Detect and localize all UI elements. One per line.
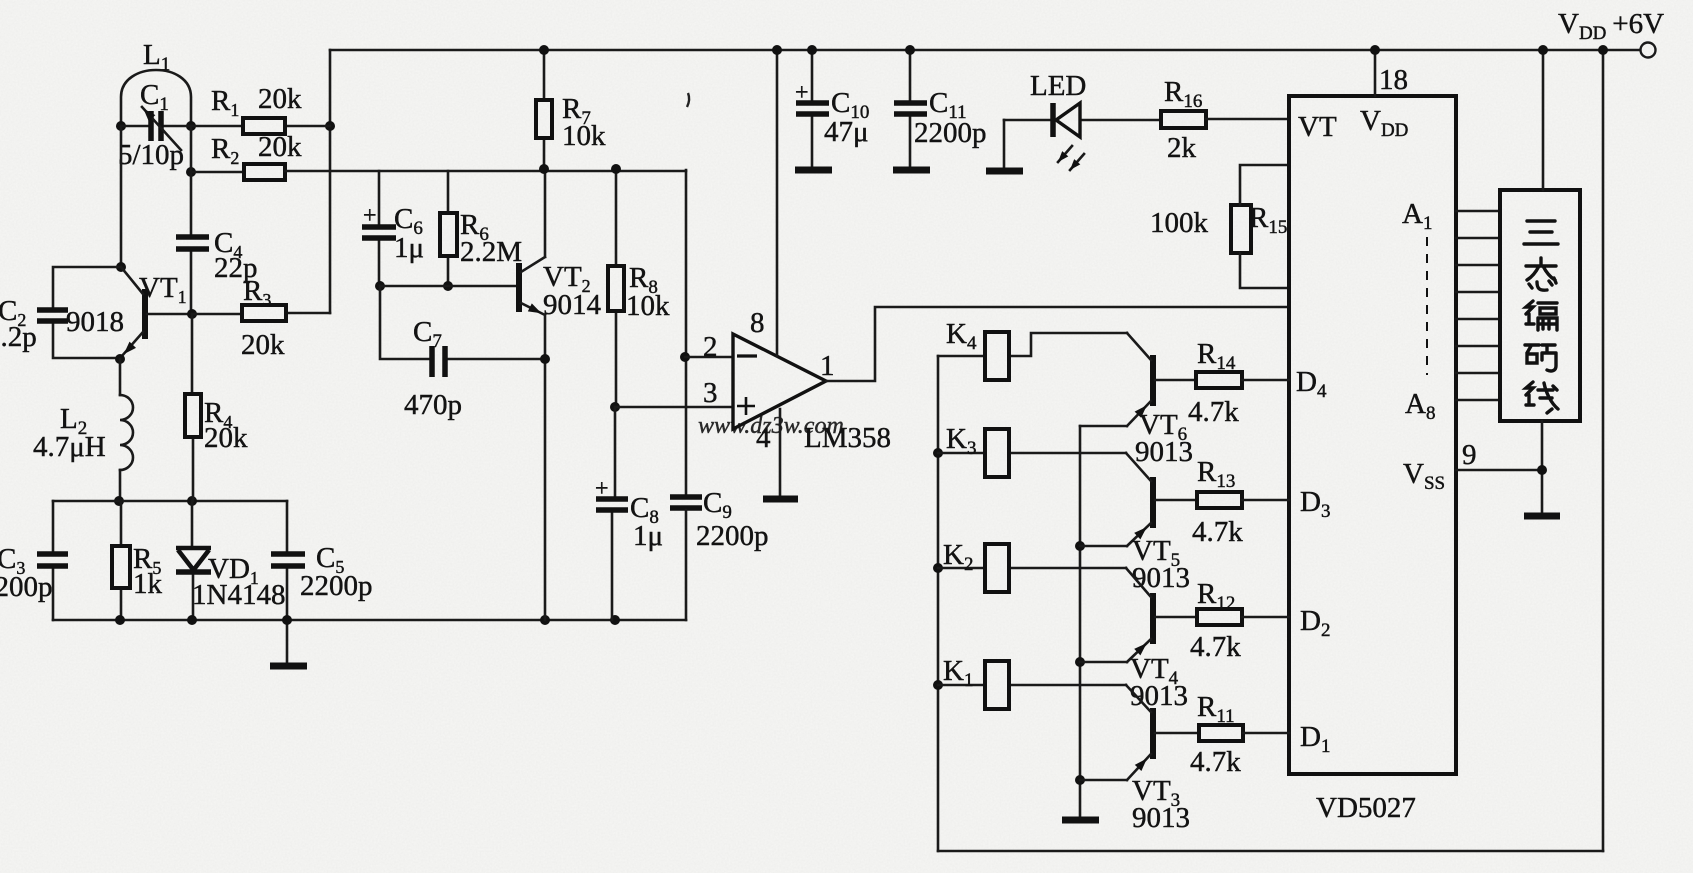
tri-state encoder lines box bbox=[1500, 190, 1580, 421]
svg-text:20k: 20k bbox=[241, 329, 285, 361]
switch K4 bbox=[938, 333, 1127, 356]
node R8 bottom / op-amp pin3 junction bbox=[610, 402, 620, 412]
wire op-amp output to VD5027 bbox=[826, 307, 1289, 381]
svg-text:20k: 20k bbox=[204, 422, 248, 454]
node C5 gnd bbox=[282, 615, 292, 625]
capacitor C11 2200p bbox=[909, 50, 912, 168]
svg-text:+: + bbox=[595, 476, 609, 502]
resistor R15 100k bbox=[1231, 205, 1251, 253]
node C11 rail bbox=[905, 45, 915, 55]
wire common emitter vertical x=1080 bbox=[1079, 426, 1082, 818]
character MA (code) bbox=[1525, 345, 1556, 371]
node R7 top rail bbox=[539, 45, 549, 55]
wire R2 to C6/R6 top rail y=170 bbox=[285, 170, 686, 173]
svg-text:4.7k: 4.7k bbox=[1190, 746, 1241, 778]
svg-text:2200p: 2200p bbox=[696, 520, 769, 552]
svg-text:2.2p: 2.2p bbox=[0, 321, 37, 353]
node VT5 emitter junction bbox=[1075, 541, 1085, 551]
node C8 gnd bbox=[610, 615, 620, 625]
character XIAN (line) bbox=[1526, 382, 1558, 413]
capacitor C3 2200p bbox=[52, 501, 55, 620]
svg-text:3: 3 bbox=[703, 377, 718, 409]
wire VDD top rail bbox=[330, 49, 1640, 52]
svg-text:10k: 10k bbox=[626, 290, 670, 322]
capacitor C2 2.2p bbox=[53, 267, 121, 358]
svg-text:2: 2 bbox=[703, 331, 718, 363]
svg-text:18: 18 bbox=[1379, 64, 1408, 96]
wire y170 right corner down x=686 bbox=[685, 170, 688, 495]
character TAI (state) bbox=[1526, 258, 1556, 290]
wire VT2 base bbox=[380, 285, 517, 288]
svg-text:9018: 9018 bbox=[66, 306, 124, 338]
node L2 bottom junction bbox=[114, 496, 124, 506]
node VT2 base left junction bbox=[375, 281, 385, 291]
svg-text:4.7μH: 4.7μH bbox=[33, 431, 106, 463]
resistor R11 4.7k bbox=[1199, 725, 1243, 741]
svg-text:2200p: 2200p bbox=[300, 570, 373, 602]
svg-text:www.dz3w.com: www.dz3w.com bbox=[698, 413, 844, 439]
node C7 right junction bbox=[540, 354, 550, 364]
capacitor C6 1u bbox=[378, 171, 381, 286]
svg-text:2200p: 2200p bbox=[914, 117, 987, 149]
svg-text:1k: 1k bbox=[133, 568, 163, 600]
svg-text:+: + bbox=[795, 80, 809, 106]
node VT1 base junction bbox=[187, 309, 197, 319]
diode VD1 1N4148 bbox=[192, 501, 193, 620]
svg-text:+: + bbox=[363, 203, 377, 229]
svg-text:LED: LED bbox=[1030, 70, 1086, 102]
wire encoder box bottom to VSS/ground bbox=[1541, 421, 1544, 514]
svg-text:2.2M: 2.2M bbox=[460, 236, 522, 268]
wire ground rail bottom-left y=620 bbox=[53, 619, 686, 622]
resistor R12 4.7k bbox=[1197, 609, 1242, 625]
wire bottom rail bbox=[938, 850, 1603, 853]
wire op-amp pin8 from rail bbox=[776, 50, 779, 356]
inductor L2 4.7uH bbox=[119, 359, 122, 395]
svg-text:1μ: 1μ bbox=[633, 520, 663, 552]
switch K1 bbox=[938, 684, 1126, 687]
svg-text:2k: 2k bbox=[1167, 132, 1197, 164]
node VD1 gnd bbox=[187, 615, 197, 625]
svg-text:100k: 100k bbox=[1150, 207, 1209, 239]
node junction R1 right bbox=[325, 121, 335, 131]
svg-text:1N4148: 1N4148 bbox=[192, 579, 285, 611]
pin 18 VDD bbox=[1374, 50, 1377, 96]
switch K3 bbox=[938, 452, 1126, 455]
switch K2 bbox=[938, 567, 1126, 570]
character BIAN (weave) bbox=[1526, 301, 1557, 330]
scan artifact tick bbox=[687, 93, 689, 107]
wire key common bus x=938 bbox=[937, 356, 940, 851]
node L1 left junction bbox=[116, 121, 126, 131]
op-amp U1 LM358 bbox=[685, 356, 733, 359]
inductor L1 antenna loop bbox=[121, 70, 191, 126]
capacitor C7 470p bbox=[380, 286, 545, 359]
svg-text:1μ: 1μ bbox=[394, 232, 424, 264]
node VDD +6V terminal bbox=[1641, 43, 1656, 58]
IC U2 VD5027 bbox=[1289, 96, 1456, 774]
node K3 bus bbox=[933, 448, 943, 458]
svg-text:4.7k: 4.7k bbox=[1188, 396, 1239, 428]
svg-text:4.7k: 4.7k bbox=[1192, 516, 1243, 548]
svg-text:20k: 20k bbox=[258, 83, 302, 115]
svg-text:9013: 9013 bbox=[1130, 680, 1188, 712]
svg-text:8: 8 bbox=[750, 307, 765, 339]
dashed line A1..A8 bbox=[1426, 237, 1428, 375]
svg-text:9014: 9014 bbox=[543, 289, 602, 321]
node K2 bus bbox=[933, 563, 943, 573]
wire encoder box to VDD rail bbox=[1542, 50, 1545, 190]
node op-amp pin2 junction bbox=[680, 352, 690, 362]
LED bbox=[1004, 119, 1161, 122]
svg-text:10k: 10k bbox=[562, 120, 606, 152]
svg-text:9013: 9013 bbox=[1132, 802, 1190, 834]
ground op-amp pin4 bbox=[779, 409, 782, 497]
svg-text:2200p: 2200p bbox=[0, 571, 53, 603]
ground LED bbox=[1003, 120, 1006, 169]
wire L1 right leg down through C4 bbox=[190, 126, 193, 314]
svg-text:VT: VT bbox=[1298, 111, 1337, 143]
wire left VDD branch vertical x=330 bbox=[329, 50, 332, 313]
node VT3 emitter junction bbox=[1075, 775, 1085, 785]
node VT4 emitter junction bbox=[1075, 657, 1085, 667]
node L1 right junction bbox=[186, 121, 196, 131]
resistor R13 4.7k bbox=[1197, 492, 1242, 508]
transistor VT3 9013 bbox=[1150, 708, 1156, 759]
resistor R8 10k bbox=[615, 170, 618, 407]
svg-text:5/10p: 5/10p bbox=[118, 139, 184, 171]
resistor R4 20k bbox=[192, 314, 193, 501]
svg-text:470p: 470p bbox=[404, 389, 462, 421]
transistor VT6 9013 bbox=[1150, 355, 1156, 406]
node VT1 collector junction bbox=[116, 262, 126, 272]
svg-text:9013: 9013 bbox=[1132, 562, 1190, 594]
node R2 left junction bbox=[186, 167, 196, 177]
svg-text:VD5027: VD5027 bbox=[1316, 792, 1416, 824]
wire VSS pin 9 bbox=[1456, 469, 1542, 472]
node VT2 emitter gnd bbox=[540, 615, 550, 625]
svg-text:1: 1 bbox=[820, 350, 835, 382]
svg-text:VDD +6V: VDD +6V bbox=[1558, 8, 1664, 44]
resistor R14 4.7k bbox=[1196, 372, 1242, 388]
capacitor C9 2200p bbox=[670, 497, 702, 508]
ground emitter chain bbox=[1062, 817, 1099, 824]
node R5 gnd bbox=[115, 615, 125, 625]
node R7 bottom junction bbox=[539, 164, 549, 174]
node pin8 rail bbox=[772, 45, 782, 55]
resistor R3 20k bbox=[192, 313, 330, 314]
resistor R7 10k bbox=[543, 50, 546, 169]
resistor R2 20k bbox=[191, 171, 244, 174]
resistor R1 20k bbox=[191, 125, 330, 128]
wire L1 left leg down to VT1 collector bbox=[120, 126, 123, 267]
svg-text:4.7k: 4.7k bbox=[1190, 631, 1241, 663]
capacitor C10 47u bbox=[811, 50, 814, 168]
capacitor C8 1u bbox=[612, 407, 615, 620]
node VT1 emitter junction bbox=[115, 354, 125, 364]
capacitor C1 5/10p variable bbox=[121, 125, 191, 128]
capacitor C5 2200p bbox=[286, 501, 289, 620]
capacitor C4 22p bbox=[176, 237, 209, 249]
node C10 rail bbox=[807, 45, 817, 55]
transistor VT4 9013 bbox=[1150, 593, 1156, 644]
node R6 bottom junction bbox=[443, 281, 453, 291]
transistor VT5 9013 bbox=[1150, 477, 1156, 528]
svg-text:47μ: 47μ bbox=[824, 116, 869, 148]
wire right VDD vertical bbox=[1602, 50, 1605, 851]
ground below C5 bbox=[286, 620, 289, 664]
node R8 top junction bbox=[611, 164, 621, 174]
resistor R5 1k bbox=[120, 501, 123, 620]
node K1 bus bbox=[933, 680, 943, 690]
ground VSS bbox=[1524, 513, 1560, 520]
svg-text:9: 9 bbox=[1462, 439, 1477, 471]
transistor VT2 9014 bbox=[516, 263, 522, 312]
resistor R6 2.2M bbox=[447, 171, 450, 286]
wires A1-A8 bus to encoder box bbox=[1456, 211, 1500, 400]
transistor VT1 9018 bbox=[142, 289, 148, 339]
character SAN (three) bbox=[1524, 221, 1558, 244]
resistor R16 2k bbox=[1161, 111, 1206, 128]
wire node row y=501 bbox=[53, 500, 287, 503]
svg-text:9013: 9013 bbox=[1135, 436, 1193, 468]
svg-text:20k: 20k bbox=[258, 131, 302, 163]
node R4 bottom junction bbox=[187, 496, 197, 506]
